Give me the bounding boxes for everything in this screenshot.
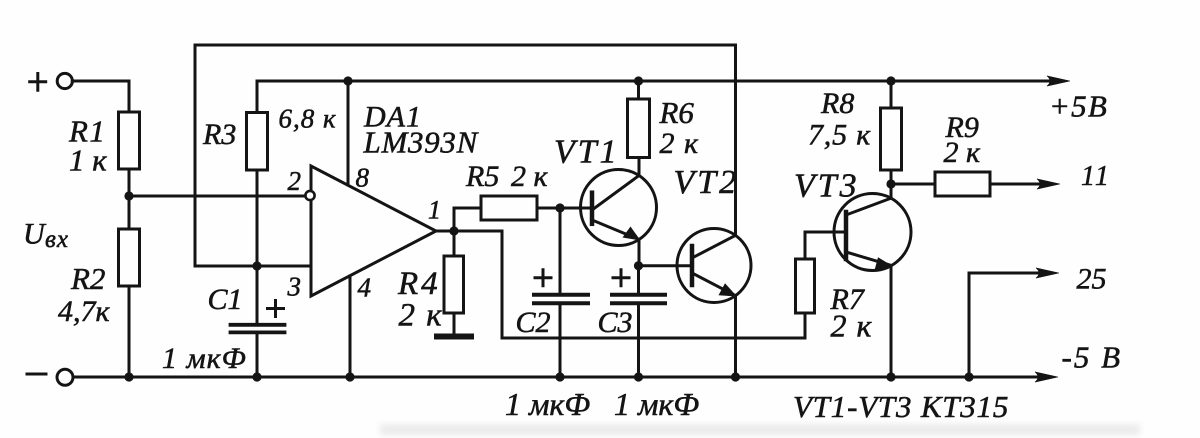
VT1 emitter line — [592, 220, 639, 240]
svg-text:7,5 к: 7,5 к — [808, 119, 871, 152]
node VT2 emitter on bottom rail — [731, 372, 740, 381]
wire C2 top — [559, 208, 562, 293]
node C2 tap on base wire — [555, 203, 564, 212]
svg-text:2 к: 2 к — [660, 127, 700, 160]
capacitor C2 — [534, 295, 588, 304]
svg-text:VT1: VT1 — [554, 134, 620, 171]
output 25 arrowhead — [1036, 268, 1059, 278]
wire pin 8 to +5V rail — [347, 81, 350, 185]
wire node to op-amp pin 2 — [129, 195, 304, 198]
node pin4 on bottom rail — [345, 372, 354, 381]
svg-text:2: 2 — [288, 166, 302, 196]
svg-text:8: 8 — [356, 163, 370, 193]
wire VT1 emitter down to node — [638, 240, 641, 266]
svg-text:VT2: VT2 — [674, 164, 740, 201]
output 11 arrowhead — [1037, 179, 1060, 189]
terminal + circle — [57, 73, 72, 88]
resistor R3 — [247, 113, 268, 171]
wire R2 bottom to bottom rail — [128, 286, 131, 377]
transistor VT2 circle — [677, 229, 751, 303]
wire rail elbow down to R3 — [256, 81, 259, 113]
node 25 branch on bottom rail — [964, 372, 973, 381]
wire output 25 branch — [969, 273, 1051, 377]
wire C3 bottom to bottom rail — [637, 305, 640, 377]
svg-text:2 к: 2 к — [399, 298, 444, 334]
wire outer feedback loop — [195, 45, 736, 266]
wire VT3 base — [805, 232, 846, 259]
VT3 emitter arrowhead — [875, 257, 893, 270]
node pin8 on rail — [343, 76, 352, 85]
terminal - label — [27, 373, 46, 376]
VT3 collector line — [846, 198, 891, 215]
C1 plus sign — [268, 301, 284, 317]
svg-text:1 к: 1 к — [69, 143, 107, 178]
VT2 emitter arrowhead — [719, 283, 738, 296]
wire R3 bottom to C1 top — [256, 170, 259, 323]
svg-text:2 к: 2 к — [831, 308, 873, 344]
svg-text:2 к: 2 к — [511, 160, 549, 193]
VT3 base bar — [844, 212, 849, 259]
op-amp DA1 triangle — [311, 166, 436, 296]
svg-text:4: 4 — [358, 273, 372, 303]
node R8 on rail — [886, 76, 895, 85]
VT3 emitter line — [846, 252, 891, 265]
svg-text:2 к: 2 к — [944, 136, 982, 169]
node R1/R2 junction — [124, 191, 133, 200]
node C1 on bottom rail — [252, 372, 261, 381]
svg-text:6,8 к: 6,8 к — [279, 104, 337, 134]
svg-text:R3: R3 — [202, 118, 236, 151]
terminal - circle — [57, 369, 73, 385]
svg-text:C2: C2 — [516, 306, 551, 339]
svg-text:R6: R6 — [659, 95, 695, 130]
resistor R4 — [444, 256, 464, 313]
svg-text:25: 25 — [1077, 263, 1107, 296]
wire + terminal to R1 top — [72, 81, 129, 112]
svg-text:11: 11 — [1081, 161, 1111, 192]
VT2 base bar — [690, 246, 695, 285]
VT2 collector line — [692, 235, 736, 258]
svg-text:4,7к: 4,7к — [58, 295, 111, 328]
capacitor C3 — [612, 295, 665, 304]
+5V rail wire — [257, 80, 1062, 83]
resistor R5 — [481, 196, 537, 220]
node R2 on bottom rail — [124, 372, 133, 381]
resistor R6 — [628, 99, 650, 158]
pin 2 inverting bubble — [305, 191, 314, 200]
transistor VT3 circle — [834, 194, 911, 271]
node C3 on bottom rail — [634, 372, 643, 381]
wire VT3 collector to node — [890, 184, 893, 198]
bottom rail wire — [73, 376, 1050, 379]
wire C2 bottom to bottom rail — [559, 305, 562, 377]
wire op-amp output — [436, 231, 805, 338]
resistor R9 — [935, 172, 990, 196]
wire R6 top to +5V rail — [637, 81, 640, 99]
node VT3 emitter on bottom rail — [886, 372, 895, 381]
VT2 emitter line — [692, 273, 736, 296]
wire VT2 emitter to bottom rail — [734, 296, 737, 377]
wire R4 bottom to ground — [453, 313, 456, 333]
node C2 on bottom rail — [555, 372, 564, 381]
wire R5 to VT1 base — [537, 207, 592, 210]
wire C1 bottom to bottom rail — [256, 334, 259, 377]
C2 plus sign — [535, 270, 551, 286]
svg-text:VT1-VT3 КТ315: VT1-VT3 КТ315 — [793, 389, 1009, 424]
VT1 collector line — [592, 176, 639, 211]
terminal + label — [30, 74, 46, 91]
ground bar under R4 — [434, 334, 474, 340]
wire R9 to output 11 — [990, 183, 1052, 186]
svg-text:R8: R8 — [820, 87, 854, 120]
wire VT1 collector to R6 — [638, 158, 641, 176]
svg-text:-5 В: -5 В — [1062, 340, 1123, 375]
wire output node down to R4 — [453, 231, 456, 256]
svg-text:VT3: VT3 — [794, 168, 860, 205]
svg-text:LM393N: LM393N — [363, 125, 480, 160]
svg-text:вх: вх — [45, 226, 69, 253]
svg-text:3: 3 — [287, 272, 302, 302]
node R6 on rail — [634, 76, 643, 85]
wire C3 top — [637, 266, 640, 293]
wire node to R9 — [891, 183, 935, 186]
wire pin 4 to bottom rail — [349, 276, 352, 377]
C3 plus sign — [613, 270, 629, 286]
wire pin 3 input — [195, 265, 311, 268]
svg-text:R5: R5 — [465, 160, 499, 193]
wire R1 bottom to R2 top — [128, 169, 131, 229]
svg-text:C1: C1 — [208, 283, 243, 316]
bottom rail arrowhead — [1035, 372, 1058, 382]
wire node to VT2 base — [639, 264, 693, 267]
VT1 emitter arrowhead — [623, 227, 641, 241]
wire R8 bottom to node — [890, 170, 893, 184]
svg-text:C3: C3 — [598, 306, 633, 339]
resistor R2 — [119, 229, 140, 286]
node VT1 emitter / C3 / VT2 base — [634, 261, 643, 270]
wire output node up to R5 — [454, 208, 481, 231]
capacitor C1 — [231, 325, 285, 333]
svg-text:1 мкФ: 1 мкФ — [614, 386, 699, 422]
node R3/C1/pin3 junction — [252, 261, 261, 270]
svg-text:1 мкФ: 1 мкФ — [505, 386, 590, 422]
node VT3 collector / R8 / R9 — [886, 179, 895, 188]
svg-text:1: 1 — [428, 196, 441, 225]
svg-text:U: U — [23, 218, 47, 251]
VT1 base bar — [590, 193, 595, 224]
wire R8 top to +5V rail — [890, 81, 893, 108]
svg-text:R2: R2 — [70, 261, 105, 296]
resistor R1 — [119, 112, 140, 169]
node output junction — [449, 226, 458, 235]
resistor R8 — [881, 108, 902, 170]
transistor VT1 circle — [581, 170, 657, 246]
svg-text:1 мкФ: 1 мкФ — [162, 342, 247, 375]
faint scan artifact band — [380, 424, 1140, 435]
svg-text:+5В: +5В — [1049, 89, 1108, 124]
wire VT3 emitter to bottom rail — [890, 265, 893, 377]
+5V rail arrowhead — [1047, 76, 1070, 86]
resistor R7 — [796, 259, 815, 313]
